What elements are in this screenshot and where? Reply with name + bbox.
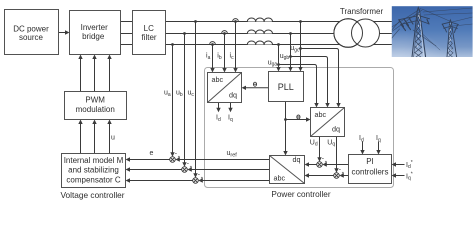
svg-text:filter: filter [141,33,156,42]
svg-text:abc: abc [274,174,286,183]
svg-text:bridge: bridge [82,32,105,41]
svg-text:controllers: controllers [352,167,389,176]
svg-text:dq: dq [229,91,237,100]
svg-text:u: u [111,135,115,142]
svg-text:Voltage controller: Voltage controller [60,190,124,200]
svg-text:modulation: modulation [76,105,115,114]
svg-text:abc: abc [212,75,224,84]
svg-text:compensator C: compensator C [66,175,120,184]
svg-text:and stabilizing: and stabilizing [68,166,119,175]
svg-text:e: e [150,150,154,157]
svg-text:Internal model M: Internal model M [64,156,124,165]
svg-text:Inverter: Inverter [81,23,108,32]
svg-text:Power controller: Power controller [271,190,330,199]
svg-text:LC: LC [144,24,154,33]
svg-text:PLL: PLL [278,82,294,92]
svg-text:abc: abc [315,110,327,119]
svg-text:PI: PI [366,157,374,166]
svg-text:dq: dq [293,155,301,164]
svg-text:source: source [19,33,44,42]
svg-text:PWM: PWM [85,95,105,104]
svg-text:Transformer: Transformer [340,7,384,16]
svg-text:dq: dq [332,125,340,134]
